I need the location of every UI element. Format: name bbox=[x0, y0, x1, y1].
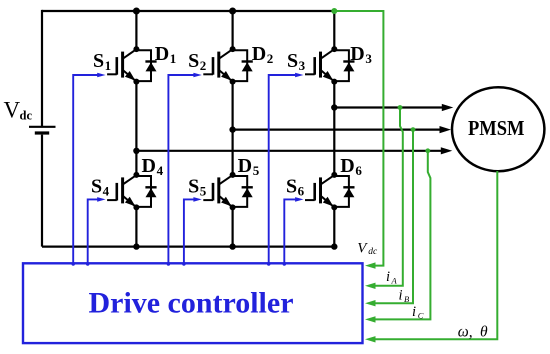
svg-text:i: i bbox=[399, 288, 403, 304]
svg-text:D: D bbox=[155, 43, 169, 65]
svg-text:D: D bbox=[238, 155, 252, 177]
svg-text:ω,: ω, bbox=[458, 324, 473, 341]
svg-text:4: 4 bbox=[157, 163, 164, 178]
svg-text:S: S bbox=[287, 50, 298, 72]
svg-text:5: 5 bbox=[200, 183, 207, 198]
svg-text:S: S bbox=[188, 175, 199, 197]
svg-text:6: 6 bbox=[298, 183, 305, 198]
svg-text:1: 1 bbox=[170, 51, 177, 66]
svg-text:S: S bbox=[286, 175, 297, 197]
svg-text:PMSM: PMSM bbox=[468, 116, 525, 140]
svg-text:6: 6 bbox=[355, 163, 362, 178]
svg-text:S: S bbox=[91, 175, 102, 197]
svg-text:dc: dc bbox=[20, 109, 33, 123]
svg-text:S: S bbox=[188, 50, 199, 72]
svg-text:D: D bbox=[252, 43, 266, 65]
svg-text:2: 2 bbox=[200, 58, 207, 73]
svg-text:A: A bbox=[391, 276, 398, 286]
svg-text:3: 3 bbox=[299, 58, 306, 73]
svg-text:1: 1 bbox=[105, 58, 112, 73]
svg-text:C: C bbox=[418, 311, 424, 321]
svg-text:B: B bbox=[404, 294, 409, 304]
svg-text:D: D bbox=[142, 155, 156, 177]
svg-text:D: D bbox=[340, 155, 354, 177]
svg-text:S: S bbox=[93, 50, 104, 72]
svg-text:4: 4 bbox=[103, 183, 110, 198]
svg-text:θ: θ bbox=[480, 324, 488, 341]
svg-text:Drive controller: Drive controller bbox=[89, 287, 294, 320]
svg-text:V: V bbox=[4, 98, 21, 123]
svg-text:3: 3 bbox=[365, 51, 372, 66]
svg-text:D: D bbox=[350, 43, 364, 65]
svg-text:dc: dc bbox=[368, 247, 378, 257]
svg-text:i: i bbox=[412, 304, 416, 320]
svg-text:2: 2 bbox=[267, 51, 274, 66]
svg-text:5: 5 bbox=[253, 163, 260, 178]
svg-text:i: i bbox=[386, 269, 390, 285]
svg-text:V: V bbox=[357, 241, 368, 257]
